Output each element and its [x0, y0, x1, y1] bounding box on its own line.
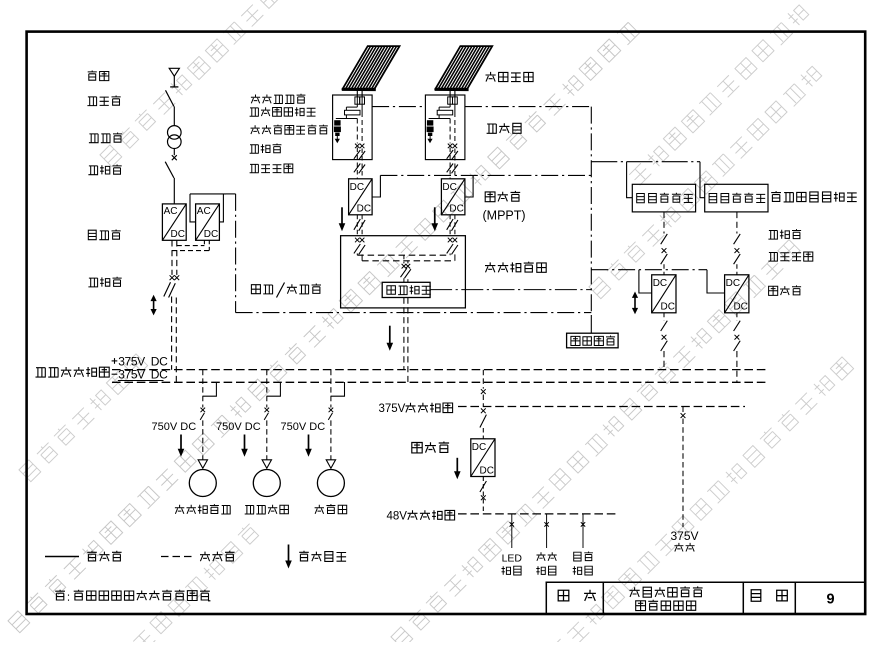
label 逆变器 — [88, 230, 120, 240]
comm line MPPT to trunk — [380, 174, 591, 176]
wire — [173, 178, 175, 204]
title label 图名 — [558, 590, 596, 601]
label +375V DC — [112, 355, 169, 369]
svg-text:AC: AC — [164, 206, 178, 217]
label 汇流监测装置 — [250, 107, 316, 116]
MPPT comm stub — [372, 175, 380, 197]
label 直流配电柜 — [485, 262, 546, 273]
svg-text:DC: DC — [653, 278, 667, 289]
bidirectional arrow (storage) — [632, 292, 638, 315]
legend DC line 直流电 — [161, 551, 235, 561]
svg-text:DC: DC — [357, 204, 371, 215]
converter branch to 48V — [480, 408, 487, 438]
label 电网 — [88, 71, 109, 81]
48V DC bus — [458, 513, 619, 515]
wire HV bus to 375V bus — [481, 370, 486, 407]
inverter comm stubs — [190, 194, 236, 222]
breaker switches (combiner) — [447, 150, 458, 160]
monitoring unit 汇流监测装置 — [429, 107, 453, 118]
label 断路器 (combiner) — [250, 144, 282, 154]
svg-text:DC: DC — [350, 182, 364, 193]
breaker x + switch (load) — [200, 408, 205, 420]
wires converter to bus — [661, 313, 668, 370]
wire pair to HV bus — [172, 297, 177, 383]
monitoring drop wire (dash-dot) — [236, 194, 592, 313]
svg-text:DC: DC — [472, 442, 486, 453]
labels combiner column — [251, 94, 306, 104]
current arrow (load) — [241, 435, 248, 457]
375V socket branch 375V插座 — [681, 407, 686, 528]
metering device box 计量装置 — [382, 282, 431, 297]
wires converter to 48V bus — [480, 477, 487, 514]
svg-text:DC: DC — [204, 229, 218, 240]
breaker switch (grid) — [165, 162, 174, 178]
label 高压直流母线 — [36, 367, 110, 377]
label -375V DC — [112, 368, 169, 382]
cabinet internal DC buses — [357, 253, 455, 260]
load connector + motor circle — [317, 460, 344, 497]
wire to load — [266, 420, 268, 459]
cabinet input breakers right — [447, 238, 458, 255]
legend current direction 电流方向 — [285, 545, 346, 569]
breaker switches (inverter output) — [164, 282, 176, 297]
label 750V DC — [281, 421, 326, 433]
label 换流器 (storage) — [769, 285, 802, 295]
cabinet input breakers left — [354, 238, 365, 255]
drawing title 光储直柔供电系统示意图 — [630, 586, 703, 610]
combiner internal wires — [450, 112, 455, 143]
label 断路器 — [88, 165, 121, 175]
load connector + motor circle — [253, 460, 280, 497]
metering comm line to monitor — [430, 289, 591, 291]
svg-text:DC: DC — [449, 204, 463, 215]
load branch tap — [203, 370, 217, 408]
DC distribution cabinet 直流配电柜 — [341, 236, 466, 308]
DC fuses 直流熔断器 — [355, 97, 365, 112]
breaker x + switch (load) — [264, 408, 269, 420]
label 换流器 (48V) — [412, 442, 449, 453]
combiner internal wires — [357, 112, 362, 143]
breaker XX (combiner) — [355, 144, 364, 149]
DC fuses 直流熔断器 — [448, 97, 458, 112]
isolator switch (battery) — [734, 254, 741, 275]
breaker XX (combiner) — [448, 144, 457, 149]
wire — [173, 106, 175, 125]
isolator switch (battery) — [661, 254, 668, 275]
label 375V插座 — [670, 529, 698, 552]
label 隔离器 — [87, 96, 120, 106]
HV DC bus -375V — [112, 381, 767, 383]
svg-text:DC: DC — [480, 465, 494, 476]
svg-text:750V DC: 750V DC — [152, 421, 197, 433]
title block — [546, 582, 865, 613]
breaker X (grid) — [172, 155, 177, 160]
combiner box 汇流箱 — [333, 95, 373, 160]
wire to load — [330, 420, 332, 459]
note 注:本示意图为直流供电系统. — [55, 590, 210, 601]
breaker switch (battery) — [734, 234, 741, 253]
svg-text:48V: 48V — [387, 510, 408, 522]
label 汇流箱 — [487, 123, 521, 133]
battery comm/feed line — [591, 162, 704, 198]
isolator switch (grid) — [166, 90, 174, 106]
battery pack 2 储能电池组 — [705, 184, 768, 212]
svg-text:375V: 375V — [379, 403, 406, 415]
surge protector 直流电涌保护器 — [334, 120, 341, 143]
label 换流器 (MPPT) — [483, 191, 526, 223]
wire to load — [202, 420, 204, 459]
load tap — [510, 514, 514, 548]
label 光伏组件 — [486, 72, 534, 82]
bidirectional current arrow — [151, 295, 157, 316]
svg-text:DC: DC — [726, 278, 740, 289]
label 断路器 (storage) — [768, 229, 801, 239]
current arrow (48V) — [454, 458, 461, 480]
converter DC/DC (48V) — [471, 439, 495, 477]
storage comm line — [591, 270, 724, 293]
inverter U1 AC/DC — [162, 204, 186, 240]
label 隔离开关 (combiner) — [250, 164, 293, 173]
svg-text:375V DC: 375V DC — [118, 368, 168, 382]
legend AC line 交流电 — [45, 551, 122, 561]
svg-text:DC: DC — [661, 302, 675, 313]
current arrow (PV to bus) — [339, 207, 346, 231]
label 集中式储能装置 — [771, 191, 857, 202]
current arrow (load) — [178, 435, 185, 457]
breaker XX (inverter output) — [170, 275, 180, 280]
MPPT comm stub — [465, 175, 473, 197]
combiner box 汇流箱 — [425, 95, 465, 160]
label 直流充电桩 — [175, 504, 231, 514]
battery pack 1 储能电池组 — [632, 184, 695, 212]
label 750V DC — [152, 421, 197, 433]
MPPT converter DC/DC 换流器 — [441, 179, 465, 215]
svg-text:750V DC: 750V DC — [281, 421, 326, 433]
label 隔离开关 (storage) — [768, 252, 812, 261]
svg-text:LED: LED — [502, 553, 523, 565]
wires panel to combiner — [357, 89, 362, 97]
label 750V DC — [216, 421, 261, 433]
svg-text:DC: DC — [171, 229, 185, 240]
label 新风机 — [315, 504, 347, 514]
breaker switches (combiner) — [354, 150, 365, 160]
battery branch wire — [663, 212, 665, 234]
current arrow (load) — [305, 435, 312, 457]
svg-text:AC: AC — [197, 206, 211, 217]
breaker x + switch (load) — [328, 408, 333, 420]
label 48V直流母线 — [387, 510, 455, 522]
surge protector 直流电涌保护器 — [427, 120, 434, 143]
label 375V直流母线 — [379, 403, 453, 415]
label 空调外机 — [245, 505, 289, 514]
load connector + motor circle — [189, 460, 216, 497]
svg-text:375V DC: 375V DC — [118, 355, 168, 369]
battery branch wire — [736, 212, 738, 234]
label LED照明 — [502, 553, 523, 576]
page number 9 — [826, 592, 834, 608]
current arrow (PV to bus) — [431, 207, 438, 231]
PV panel 光伏组件 — [435, 46, 493, 90]
wires converter to bus — [734, 313, 741, 382]
svg-text:375V: 375V — [670, 529, 698, 543]
isolator switches below combiner — [354, 148, 365, 179]
page label 页次 — [751, 590, 787, 602]
wires panel to combiner — [450, 89, 455, 97]
comm trunk vertical — [590, 107, 592, 334]
svg-text:9: 9 — [826, 592, 834, 608]
monitoring system box 监测系统 — [567, 333, 619, 348]
label 直流电涌保护器 — [251, 125, 328, 135]
svg-text:750V DC: 750V DC — [216, 421, 261, 433]
transformer T — [168, 126, 182, 149]
current arrow to bus — [387, 326, 394, 351]
grid source symbol 电网 — [169, 68, 179, 87]
inverter U2 AC/DC — [196, 204, 220, 240]
MPPT converter DC/DC 换流器 — [349, 179, 373, 215]
375V DC bus — [458, 406, 745, 408]
inverter output wires (DC pair) — [172, 240, 209, 275]
label 公共照明 — [573, 552, 593, 576]
load branch tap — [267, 370, 281, 408]
HV DC bus +375V — [112, 369, 767, 371]
label 计量/控制器 — [251, 283, 321, 298]
PV panel 光伏组件 — [342, 46, 400, 90]
metering tap breakers — [401, 255, 411, 282]
svg-text:(MPPT): (MPPT) — [483, 209, 526, 223]
isolator switches below combiner — [447, 148, 458, 179]
label 插座照明 — [536, 552, 556, 575]
load tap — [581, 514, 585, 548]
wires MPPT to cabinet — [447, 215, 458, 236]
wires metering to HV bus — [404, 298, 408, 383]
svg-text:DC: DC — [442, 182, 456, 193]
storage converter DC/DC — [725, 275, 749, 313]
svg-text:DC: DC — [733, 302, 747, 313]
storage converter DC/DC — [652, 275, 676, 313]
comm line combiner to trunk — [372, 106, 591, 108]
breaker switch (battery) — [661, 234, 668, 253]
label 断路器 (inverter) — [88, 277, 121, 287]
wire — [173, 149, 175, 156]
wires MPPT to cabinet — [354, 215, 365, 236]
load branch tap — [331, 370, 345, 408]
label 变压器 — [89, 133, 122, 143]
load tap — [544, 514, 548, 548]
monitoring unit 汇流监测装置 — [336, 107, 360, 118]
